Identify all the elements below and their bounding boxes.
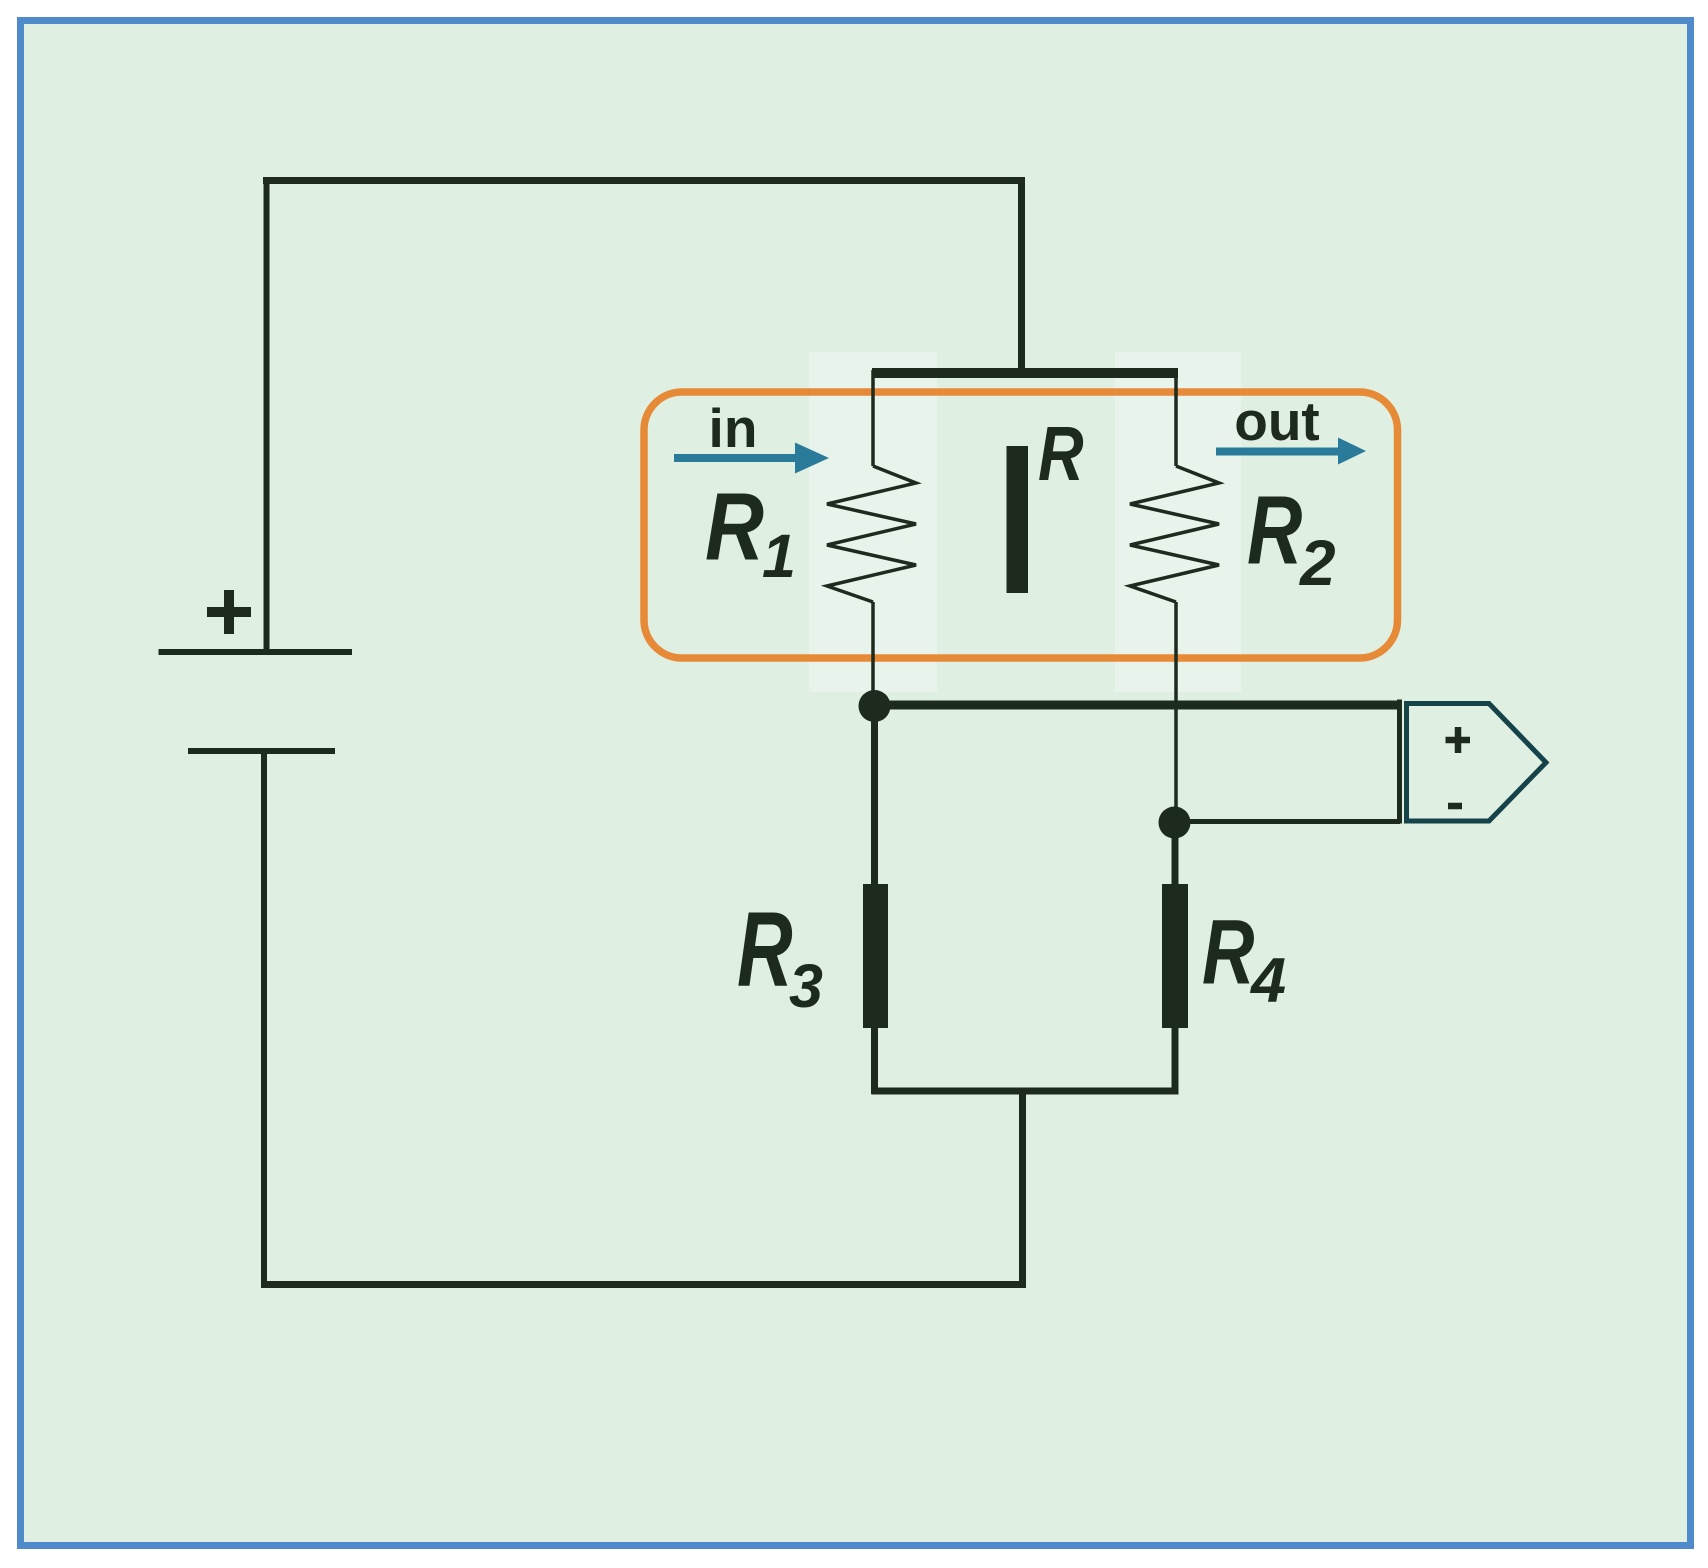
wire node B to connector	[1174, 819, 1400, 824]
svg-text:R: R	[1038, 410, 1084, 496]
resistor R3	[863, 884, 888, 1028]
svg-text:R: R	[1247, 476, 1302, 585]
svg-text:3: 3	[789, 952, 823, 1020]
label R1	[705, 472, 796, 590]
highlight band behind R1	[809, 352, 937, 692]
battery B1 positive plate	[159, 649, 353, 655]
node B	[1159, 807, 1191, 839]
label R4	[1202, 900, 1286, 1016]
wire R4 lower lead	[1172, 1028, 1179, 1094]
resistor R (bar)	[1007, 446, 1029, 593]
wire center tap vertical	[1019, 1091, 1026, 1288]
svg-text:in: in	[709, 397, 758, 459]
svg-text:R: R	[705, 472, 764, 580]
wire left vertical upper	[264, 177, 270, 652]
svg-text:4: 4	[1249, 946, 1286, 1016]
wire lower mid rail	[872, 1088, 1179, 1095]
node A	[859, 690, 891, 722]
wire node A to connector	[874, 701, 1402, 710]
resistor R2	[1130, 370, 1219, 823]
wire bottom rail	[261, 1281, 1026, 1288]
wire connector left vertical	[1397, 700, 1402, 824]
svg-text:R: R	[737, 890, 793, 1009]
battery B1 negative plate	[188, 748, 335, 754]
connector minus	[1448, 803, 1462, 810]
wire R3 lower lead	[871, 1028, 878, 1094]
svg-text:2: 2	[1299, 527, 1336, 599]
wire node B down	[1172, 823, 1179, 886]
svg-text:R: R	[1202, 900, 1255, 1003]
arrow out	[1216, 438, 1366, 465]
connector plus	[1446, 727, 1471, 753]
wire thick mid bus	[872, 368, 1178, 378]
resistor R1	[827, 370, 916, 708]
label R3	[737, 890, 823, 1020]
wire left vertical lower	[261, 751, 267, 1288]
frame box (orange)	[644, 392, 1398, 658]
wire top rail	[263, 177, 1025, 184]
arrow in	[674, 443, 829, 474]
svg-text:1: 1	[762, 522, 796, 590]
resistor R4	[1162, 884, 1188, 1028]
wire node A down	[871, 706, 878, 886]
connector output	[1407, 704, 1547, 822]
svg-text:out: out	[1234, 390, 1320, 452]
battery B1 plus sign	[207, 590, 251, 634]
wire top right vertical drop	[1018, 177, 1025, 378]
highlight band behind R2	[1115, 352, 1241, 692]
label R2	[1247, 476, 1336, 599]
